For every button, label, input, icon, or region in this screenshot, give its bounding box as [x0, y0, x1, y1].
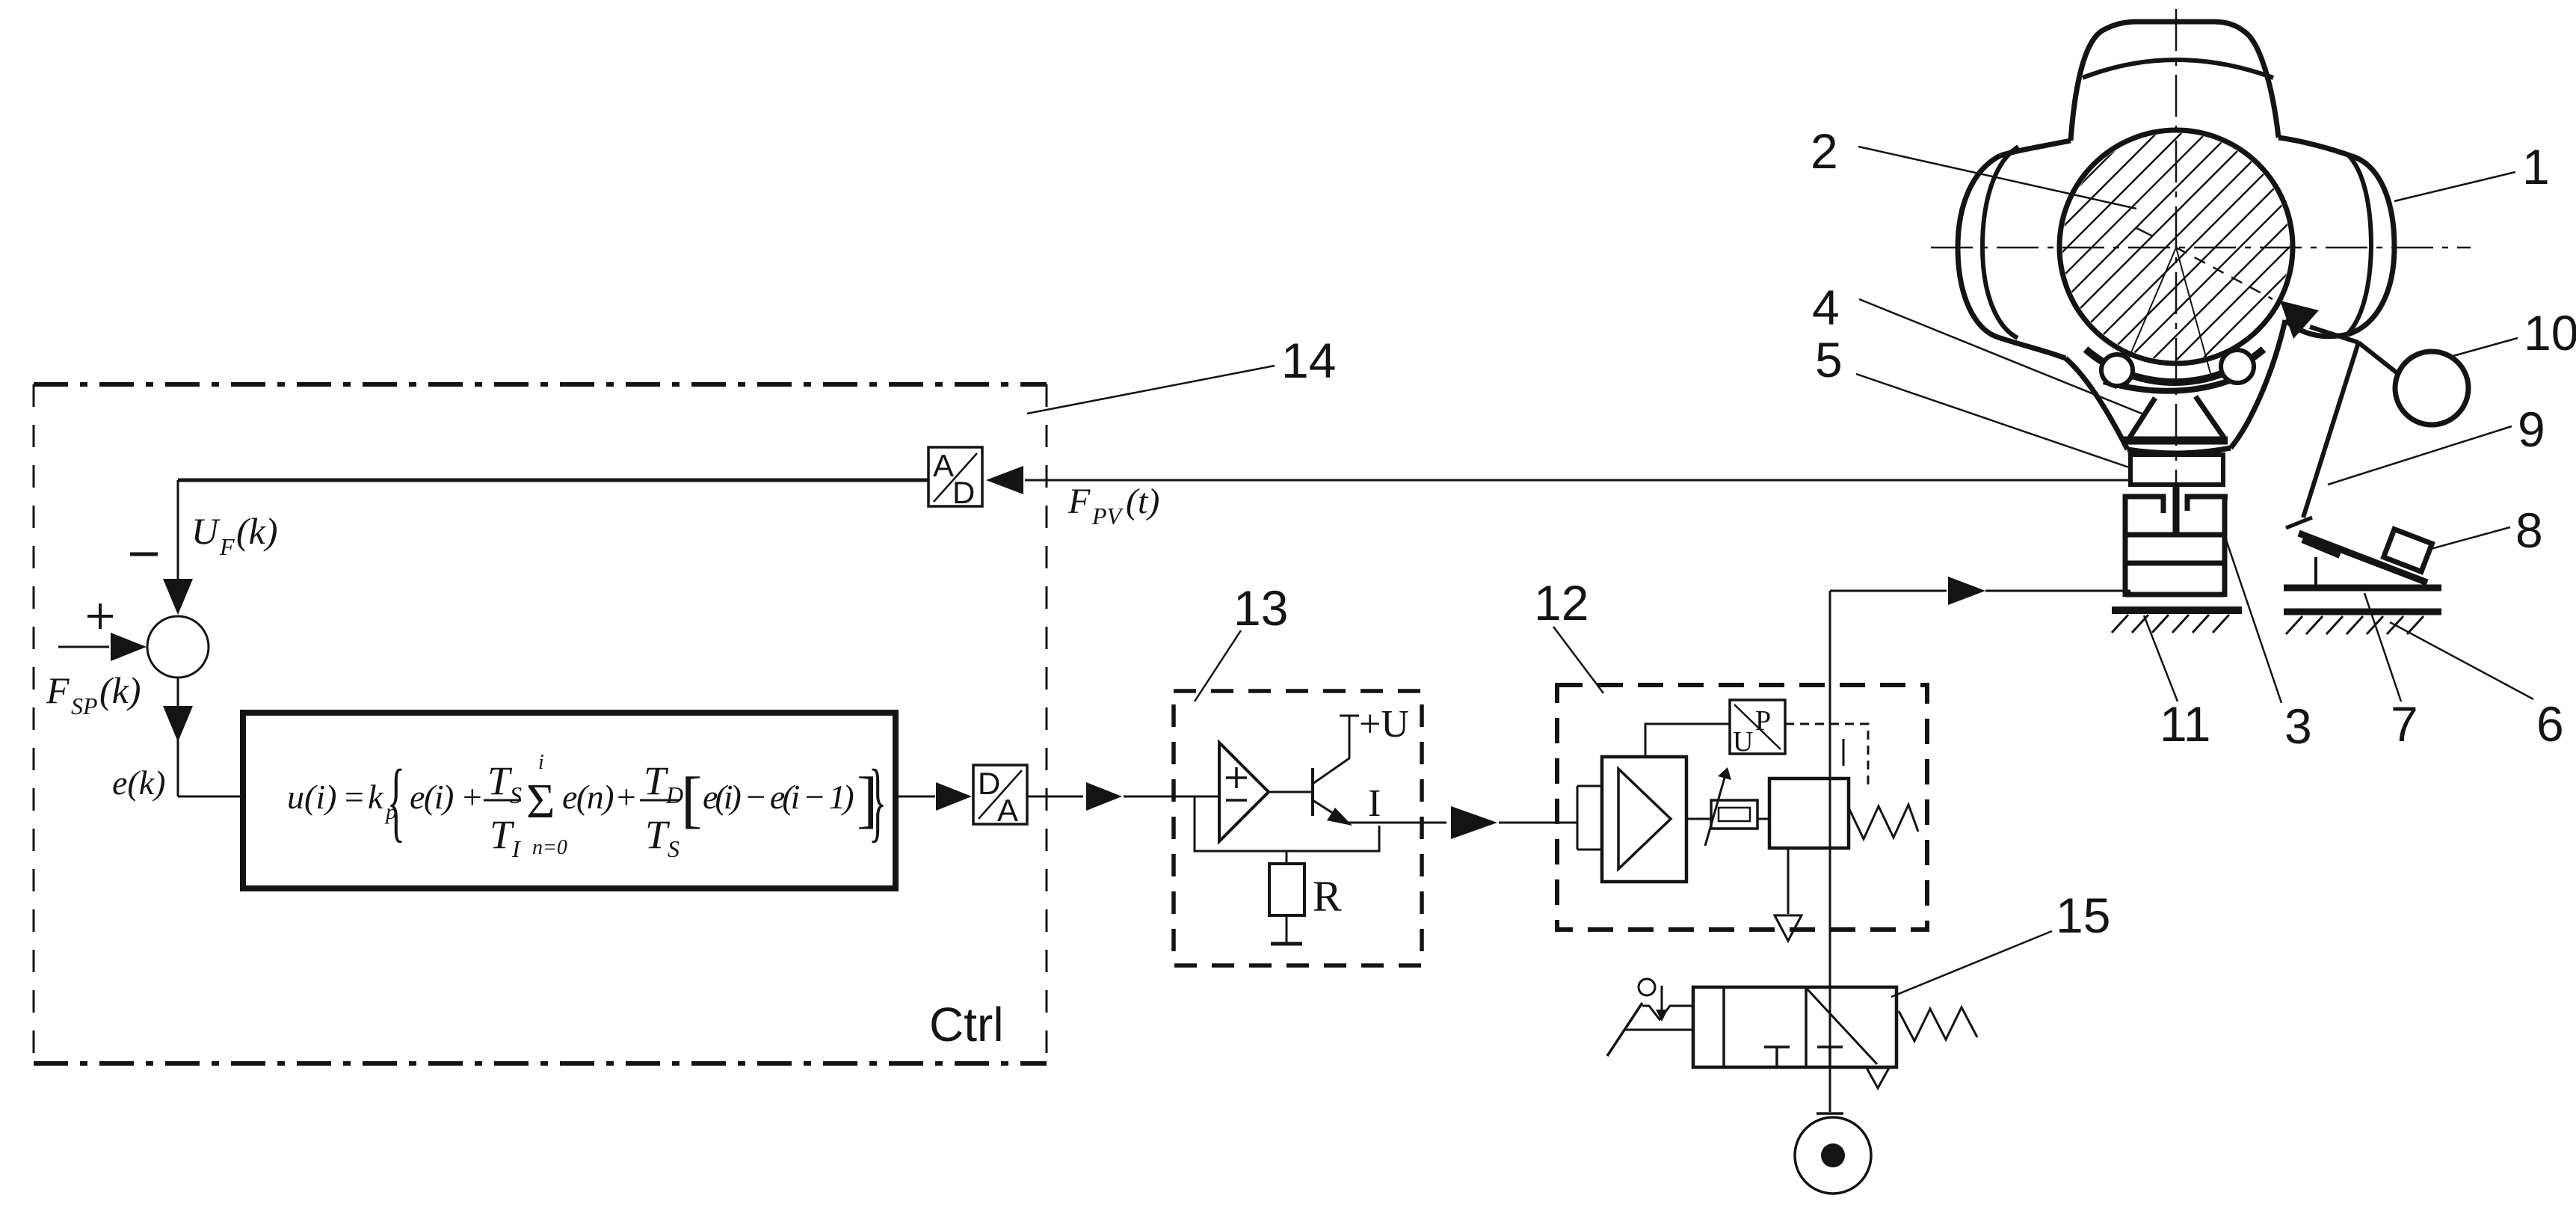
svg-text:11: 11: [2160, 696, 2211, 752]
svg-text:(k): (k): [236, 510, 278, 552]
svg-text:SP: SP: [71, 692, 98, 719]
svg-text:{: {: [387, 751, 405, 850]
svg-text:S: S: [668, 835, 680, 862]
svg-text:+U: +U: [1359, 703, 1409, 746]
svg-text:4: 4: [1812, 280, 1840, 335]
svg-text:12: 12: [1534, 575, 1589, 630]
svg-text:A: A: [933, 448, 954, 483]
svg-text:PV: PV: [1091, 503, 1124, 529]
svg-text:Ctrl: Ctrl: [929, 998, 1004, 1051]
svg-text:14: 14: [1281, 333, 1336, 388]
svg-text:2: 2: [1811, 123, 1838, 179]
svg-text:(t): (t): [1126, 482, 1159, 521]
svg-text:9: 9: [2518, 402, 2545, 457]
svg-text:U: U: [191, 510, 221, 552]
svg-text:[: [: [681, 764, 702, 835]
svg-text:5: 5: [1815, 332, 1843, 387]
svg-text:3: 3: [2284, 698, 2312, 754]
svg-text:R: R: [1313, 872, 1342, 921]
svg-text:T: T: [645, 812, 671, 857]
svg-text:P: P: [1755, 705, 1771, 737]
svg-text:15: 15: [2056, 888, 2110, 943]
svg-text:U: U: [1733, 726, 1753, 758]
svg-text:F: F: [219, 533, 235, 560]
svg-text:e(i) +: e(i) +: [410, 778, 482, 816]
svg-text:F: F: [46, 669, 70, 711]
svg-text:6: 6: [2536, 696, 2564, 752]
svg-text:D: D: [952, 475, 975, 510]
svg-text:F: F: [1067, 482, 1091, 521]
svg-text:10: 10: [2524, 305, 2576, 360]
svg-text:T: T: [644, 758, 669, 803]
svg-text:I: I: [511, 835, 521, 862]
svg-text:S: S: [510, 781, 522, 808]
svg-text:+: +: [614, 778, 638, 816]
svg-text:}: }: [869, 751, 887, 850]
svg-text:e(n): e(n): [562, 778, 613, 816]
svg-text:13: 13: [1233, 580, 1288, 636]
svg-text:(k): (k): [99, 669, 141, 711]
svg-text:Σ: Σ: [526, 774, 555, 829]
svg-text:T: T: [490, 812, 515, 857]
svg-text:I: I: [1368, 782, 1381, 825]
svg-text:7: 7: [2391, 696, 2418, 752]
svg-text:k: k: [368, 778, 384, 816]
svg-text:=: =: [342, 778, 366, 816]
svg-text:e(k): e(k): [112, 764, 165, 802]
svg-text:e(i) − e(i − 1): e(i) − e(i − 1): [703, 778, 853, 816]
svg-text:A: A: [997, 793, 1018, 828]
svg-text:1: 1: [2522, 139, 2550, 194]
svg-text:T: T: [487, 758, 513, 803]
svg-text:u(i): u(i): [287, 778, 336, 816]
svg-text:i: i: [538, 751, 544, 774]
svg-text:8: 8: [2515, 503, 2543, 558]
svg-text:n=0: n=0: [532, 836, 567, 859]
